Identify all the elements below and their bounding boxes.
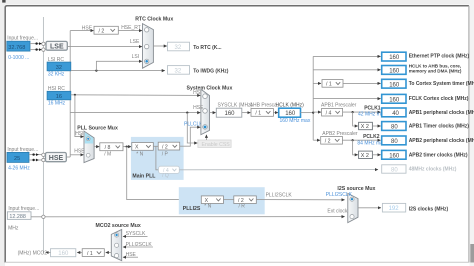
wire LSE to RTC mux [67,46,142,48]
svg-text:LSE: LSE [50,44,64,51]
wire CSS from HSE to Enable [187,113,197,143]
wire APB2 to X2 [353,140,358,155]
svg-text:/ 1: / 1 [326,82,332,88]
svg-text:APB2 timer clocks (MHz): APB2 timer clocks (MHz) [409,152,468,158]
wire PLLI2SCLK to I2S mux [256,199,344,201]
svg-text:/ 1: / 1 [87,251,93,257]
svg-text:PLLCLK: PLLCLK [184,122,203,128]
svg-text:(MHz) MCO2: (MHz) MCO2 [18,250,48,256]
wire HSE branch to PLL mux [70,154,83,156]
wire MCO2 HSE stub [123,252,138,258]
svg-text:160: 160 [58,251,69,257]
svg-text:/ R: / R [239,204,246,210]
svg-text:HSE_RT: HSE_RT [121,25,141,31]
wire to HCLK AHB [313,69,380,71]
wire to cortex divider [313,82,321,84]
svg-text:PLLI2S: PLLI2S [183,206,201,212]
svg-text:To RTC (K...: To RTC (K... [193,45,222,51]
wire RTC mux output [153,45,166,47]
svg-text:16: 16 [56,94,62,100]
box To IWDG [168,66,229,75]
divider RTC HSE /2 [94,26,118,34]
box I2S clocks [382,203,448,212]
svg-text:MHz: MHz [8,225,19,231]
mux I2S source Mux [326,186,376,223]
box APB2 timer clocks [382,150,468,159]
svg-text:160: 160 [285,111,296,117]
divider PLLI2S /R [234,196,256,210]
wire LSE input pair [30,42,45,51]
box APB2 peripheral clocks [382,136,474,145]
oscillator LSI RC [47,57,71,78]
wire input column line [42,17,44,253]
svg-text:80: 80 [391,167,398,173]
wire Ext clock from I2S_CKIN [31,215,345,218]
svg-text:192: 192 [389,206,400,212]
svg-text:* N: * N [136,151,143,157]
svg-text:RTC Clock Mux: RTC Clock Mux [135,16,173,22]
wire AHB bus vertical [312,56,314,140]
mux MCO2 source Mux [96,223,141,261]
wire I2S N to R [223,199,233,201]
svg-text:32: 32 [175,68,182,74]
wire SYSCLK to AHB prescaler [242,112,251,114]
svg-text:APB1 Timer clocks (MHz): APB1 Timer clocks (MHz) [409,124,470,130]
wire APB1 to PCLK1 [343,111,381,113]
divider AHB Prescaler [250,102,281,116]
box HCLK to AHB [382,63,462,74]
wire HSE to system mux [70,112,200,114]
svg-text:X 2: X 2 [361,153,369,159]
svg-text:12.288: 12.288 [9,214,26,220]
svg-text:HSE: HSE [49,155,64,162]
svg-text:To IWDG (KHz): To IWDG (KHz) [193,68,229,74]
divider /M [100,143,123,158]
svg-text:Input freque...: Input freque... [8,206,39,212]
svg-text:/ 2: / 2 [325,139,331,145]
wire MCO2 out to label [46,252,51,254]
wire HSE_RT [118,30,142,32]
box APB1 peripheral clocks [382,108,474,117]
wire X2 to APB1 timer box [372,125,380,127]
svg-text:4-26 MHz: 4-26 MHz [8,166,30,172]
wire LSI to IWDG [71,70,165,72]
svg-text:/ 1: / 1 [255,111,261,117]
svg-text:X 2: X 2 [361,124,369,130]
svg-text:160 MHz max: 160 MHz max [280,118,311,124]
wire PLL mux out to /M [94,146,99,148]
wire HSI to system mux [71,94,201,97]
box MCO2 (disabled) [51,249,76,257]
wire cortex div to box [343,82,381,84]
svg-text:/ 4: / 4 [326,110,332,116]
box FCLK Cortex clock [382,94,469,103]
wire AHB to HCLK [273,112,278,114]
wire MCO2 mux out [106,252,112,254]
mux RTC Clock Mux [135,16,173,68]
wire HSE input pair [29,153,45,162]
oscillator HSE [46,153,67,163]
mux System Clock Mux [187,86,233,135]
oscillator LSE [46,41,67,50]
svg-text:Ext clock: Ext clock [327,209,348,215]
wire LSI branch to RTC mux [96,61,142,70]
wire /M to Main PLL [123,146,131,148]
divider MCO2 /1 [82,249,104,257]
divider Cortex /1 [322,80,343,88]
svg-text:X: X [135,145,139,151]
svg-text:PCLK1: PCLK1 [364,105,381,111]
svg-text:Enable CSS: Enable CSS [202,142,231,148]
svg-text:APB1 peripheral clocks (MHz): APB1 peripheral clocks (MHz) [409,110,474,116]
scrollbar nub [470,244,474,263]
svg-text:PLLI2SCLK: PLLI2SCLK [266,192,293,198]
svg-text:HSI: HSI [75,131,83,137]
multiplier X2 APB1 [359,122,373,130]
svg-text:160: 160 [389,153,400,159]
wire PLLCLK up to system mux [180,127,201,146]
wire N down to Q [156,146,158,170]
svg-text:/ 8: / 8 [105,145,111,151]
box APB1 Timer clocks [382,122,470,131]
panel Main PLL [131,137,184,180]
svg-text:32: 32 [56,65,62,71]
wire HSE to RTC divider [70,30,93,32]
svg-text:APB2 peripheral clocks (MHz): APB2 peripheral clocks (MHz) [409,138,474,144]
wire to FCLK [313,98,380,100]
svg-text:160: 160 [225,111,236,117]
svg-text:160: 160 [389,97,400,103]
wire MCO2 SYSCLK stub [123,231,148,237]
svg-text:I2S clocks (MHz): I2S clocks (MHz) [409,206,449,212]
svg-text:HSI RC: HSI RC [48,86,65,92]
svg-text:/ P: / P [162,151,169,157]
box SYSCLK [216,102,252,117]
wire /M down to PLLI2S [127,147,201,200]
box To RTC [168,42,223,51]
svg-text:/ Q: / Q [162,173,169,179]
wire MCO2 PLLI2SCLK stub [123,242,153,248]
svg-text:Main PLL: Main PLL [132,173,156,179]
button Enable CSS [198,140,231,148]
svg-text:32 KHz: 32 KHz [48,72,65,78]
svg-text:MCO2 source Mux: MCO2 source Mux [96,223,141,229]
svg-text:/ 2: / 2 [99,29,105,35]
svg-text:32.768: 32.768 [8,45,25,51]
svg-text:memory and DMA (MHz): memory and DMA (MHz) [409,68,462,73]
node I2S_CKIN input frequency [7,206,39,231]
divider APB2 Prescaler [313,131,358,145]
wire N to P [153,145,158,147]
box 48MHz clocks (disabled) [382,165,457,174]
node LSE input frequency [7,35,38,61]
svg-text:FCLK Cortex clock (MHz): FCLK Cortex clock (MHz) [409,96,469,102]
box To Cortex System timer [382,79,474,88]
svg-text:25: 25 [14,156,20,162]
svg-text:/ 2: / 2 [162,144,168,150]
svg-text:Input freque...: Input freque... [7,35,38,41]
wire APB2 to PCLK2 [342,139,380,141]
wire HCLK to bus [301,112,314,114]
wire Q to 48MHz box [179,169,378,171]
svg-text:PLLI2SCLK: PLLI2SCLK [326,192,353,198]
wire X2 to APB2 timer box [372,154,380,156]
svg-text:160: 160 [389,82,400,88]
box HCLK [276,102,311,124]
svg-text:SYSCLK (MHz): SYSCLK (MHz) [218,102,253,108]
svg-text:16 MHz: 16 MHz [48,101,66,107]
wire APB1 to X2 [353,112,358,126]
multiplier *N [132,143,154,158]
oscillator HSI RC [47,86,71,107]
wire I2S mux out [358,207,381,209]
mux PLL Source Mux [74,125,118,162]
svg-text:APB1 Prescaler: APB1 Prescaler [321,103,357,109]
svg-text:LSI: LSI [132,54,140,60]
multiplier X2 APB2 [359,151,373,159]
wire sysmux out [210,112,216,114]
svg-text:32: 32 [175,45,182,51]
svg-text:* N: * N [204,204,211,210]
wire to Ethernet PTP [313,55,380,57]
svg-text:PCLK2: PCLK2 [363,134,380,140]
svg-text:80: 80 [391,139,398,145]
divider /P [158,142,180,157]
wire HSI branch to PLL mux [75,95,84,137]
wire HSE vertical trunk [69,31,71,157]
divider /Q (disabled) [159,166,180,179]
multiplier PLLI2S *N [201,196,223,210]
svg-text:HSE: HSE [193,105,204,111]
corner mark [2,0,5,3]
svg-text:/ M: / M [104,152,111,158]
svg-text:0-1000 ...: 0-1000 ... [8,55,29,61]
svg-text:HSE: HSE [82,25,93,31]
wire CSS up arrow into mux [205,135,207,140]
svg-text:Ethernet PTP clock (MHz): Ethernet PTP clock (MHz) [409,54,470,60]
svg-text:80: 80 [391,125,398,131]
svg-text:HSI: HSI [193,90,201,96]
panel PLLI2S [179,187,265,214]
node HSE input frequency [7,147,38,171]
wire /1 to MCO2 box [77,252,82,254]
svg-text:160: 160 [389,69,400,75]
svg-text:LSE: LSE [130,39,140,45]
frame background strips [0,0,5,266]
box Ethernet PTP clock [382,52,470,61]
svg-text:40: 40 [392,111,399,117]
svg-text:48MHz clocks (MHz): 48MHz clocks (MHz) [409,167,457,173]
divider APB1 Prescaler [313,103,356,117]
svg-text:160: 160 [389,55,400,61]
svg-text:HSE: HSE [74,148,85,154]
svg-text:To Cortex System timer (MHz): To Cortex System timer (MHz) [409,81,474,87]
